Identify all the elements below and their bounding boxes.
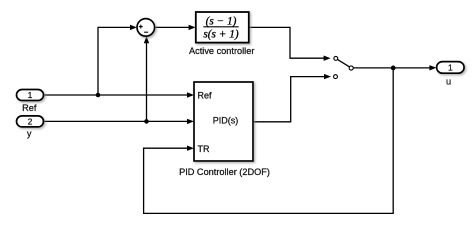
- svg-text:(s − 1): (s − 1): [206, 16, 237, 28]
- svg-text:1: 1: [28, 90, 33, 100]
- svg-text:1: 1: [448, 62, 453, 72]
- svg-text:Active controller: Active controller: [189, 46, 254, 56]
- svg-text:Ref: Ref: [198, 90, 213, 100]
- svg-text:u: u: [446, 76, 451, 86]
- svg-text:TR: TR: [198, 144, 210, 154]
- svg-text:Ref: Ref: [22, 103, 37, 113]
- svg-text:PID(s): PID(s): [213, 116, 239, 126]
- svg-text:s(s + 1): s(s + 1): [203, 28, 238, 40]
- svg-text:2: 2: [28, 116, 33, 126]
- svg-text:PID Controller (2DOF): PID Controller (2DOF): [179, 167, 270, 177]
- svg-text:y: y: [27, 129, 32, 139]
